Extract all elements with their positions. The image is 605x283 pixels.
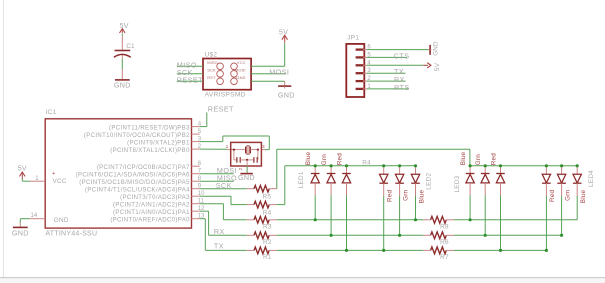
svg-text:Red: Red bbox=[387, 190, 394, 202]
svg-text:RST: RST bbox=[207, 75, 216, 80]
svg-text:Blue: Blue bbox=[418, 190, 425, 204]
svg-text:(PCINT3/T0/ADC3)PA3: (PCINT3/T0/ADC3)PA3 bbox=[120, 195, 190, 201]
svg-text:(PCINT10/INT0/OC0A/CKOUT)PB2: (PCINT10/INT0/OC0A/CKOUT)PB2 bbox=[84, 133, 190, 139]
svg-text:RESET: RESET bbox=[177, 75, 203, 84]
svg-text:VCC: VCC bbox=[237, 60, 246, 65]
svg-text:MOSI: MOSI bbox=[269, 68, 289, 77]
svg-text:(PCINT6/OC1A/SDA/MOSI/ADC6)PA6: (PCINT6/OC1A/SDA/MOSI/ADC6)PA6 bbox=[76, 172, 191, 178]
svg-text:R6: R6 bbox=[440, 239, 449, 246]
svg-text:RESET: RESET bbox=[208, 104, 234, 113]
svg-text:GND: GND bbox=[238, 173, 255, 182]
svg-text:1: 1 bbox=[35, 176, 39, 182]
svg-text:Blue: Blue bbox=[580, 190, 587, 204]
svg-text:14: 14 bbox=[31, 213, 38, 219]
svg-text:R4: R4 bbox=[362, 160, 371, 167]
svg-text:GND: GND bbox=[236, 75, 245, 80]
svg-text:ATTINY44-SSU: ATTINY44-SSU bbox=[45, 230, 97, 237]
svg-text:JP1: JP1 bbox=[347, 35, 359, 42]
svg-text:Blue: Blue bbox=[460, 151, 467, 165]
svg-text:5V: 5V bbox=[279, 29, 288, 36]
svg-text:LED1: LED1 bbox=[298, 171, 305, 188]
svg-text:+: + bbox=[52, 171, 55, 177]
svg-text:GND: GND bbox=[114, 80, 131, 89]
svg-text:SCK: SCK bbox=[216, 181, 232, 190]
svg-text:GND: GND bbox=[278, 90, 295, 99]
svg-text:CTS: CTS bbox=[394, 51, 410, 60]
svg-text:MISO: MISO bbox=[207, 60, 218, 65]
svg-text:RX: RX bbox=[214, 227, 225, 236]
svg-text:C1: C1 bbox=[126, 43, 135, 50]
svg-text:GND: GND bbox=[54, 217, 69, 224]
svg-text:Blue: Blue bbox=[305, 151, 312, 165]
svg-text:5: 5 bbox=[198, 129, 202, 135]
svg-text:R7: R7 bbox=[440, 254, 449, 261]
svg-text:Grn: Grn bbox=[564, 190, 571, 201]
svg-text:GND: GND bbox=[433, 41, 440, 56]
svg-text:(PCINT8/XTAL1/CLKI)PB0: (PCINT8/XTAL1/CLKI)PB0 bbox=[110, 148, 190, 154]
svg-text:(PCINT4/T1/SCL/USCK/ADC4)PA4: (PCINT4/T1/SCL/USCK/ADC4)PA4 bbox=[85, 187, 190, 193]
svg-text:Grn: Grn bbox=[402, 190, 409, 201]
svg-text:R2: R2 bbox=[263, 239, 272, 246]
svg-text:U$2: U$2 bbox=[205, 52, 218, 59]
svg-text:(PCINT9/XTAL2)PB1: (PCINT9/XTAL2)PB1 bbox=[127, 140, 190, 146]
svg-text:GND: GND bbox=[12, 228, 29, 237]
svg-text:(PCINT0/AREF/ADC0)PA0: (PCINT0/AREF/ADC0)PA0 bbox=[110, 217, 190, 223]
svg-text:Red: Red bbox=[490, 153, 497, 165]
svg-text:IC1: IC1 bbox=[45, 109, 56, 116]
svg-text:Red: Red bbox=[336, 153, 343, 165]
svg-text:(PCINT2/AIN1/ADC2)PA2: (PCINT2/AIN1/ADC2)PA2 bbox=[113, 202, 190, 208]
svg-text:R1: R1 bbox=[263, 254, 272, 261]
svg-text:RTS: RTS bbox=[394, 83, 410, 92]
svg-text:5V: 5V bbox=[120, 23, 129, 30]
svg-text:R8: R8 bbox=[440, 223, 449, 230]
svg-text:TX: TX bbox=[214, 242, 224, 251]
svg-text:R3: R3 bbox=[263, 224, 272, 231]
svg-text:5V: 5V bbox=[434, 62, 441, 71]
svg-text:LED3: LED3 bbox=[454, 175, 461, 192]
svg-text:LED2: LED2 bbox=[426, 173, 433, 190]
svg-text:SCK: SCK bbox=[207, 68, 216, 73]
svg-text:Grn: Grn bbox=[475, 154, 482, 165]
svg-text:LED4: LED4 bbox=[588, 170, 595, 187]
svg-text:R5: R5 bbox=[263, 194, 272, 201]
svg-text:(PCINT7/ICP/OC0B/ADC7)PA7: (PCINT7/ICP/OC0B/ADC7)PA7 bbox=[97, 165, 190, 171]
svg-text:R4: R4 bbox=[263, 209, 272, 216]
svg-text:(PCINT5/OC1B/MISO/DO/ADC5)PA5: (PCINT5/OC1B/MISO/DO/ADC5)PA5 bbox=[79, 180, 190, 186]
svg-text:Grn: Grn bbox=[321, 154, 328, 165]
svg-text:VCC: VCC bbox=[53, 178, 67, 185]
svg-text:Red: Red bbox=[549, 190, 556, 202]
svg-text:6: 6 bbox=[198, 161, 202, 167]
svg-text:AVRISPSMD: AVRISPSMD bbox=[205, 91, 246, 98]
svg-text:MOSI: MOSI bbox=[235, 68, 246, 73]
svg-text:(PCINT1/AIN0/ADC1)PA1: (PCINT1/AIN0/ADC1)PA1 bbox=[113, 210, 190, 216]
svg-text:(PCINT11/RESET/DW)PB3: (PCINT11/RESET/DW)PB3 bbox=[109, 125, 190, 131]
